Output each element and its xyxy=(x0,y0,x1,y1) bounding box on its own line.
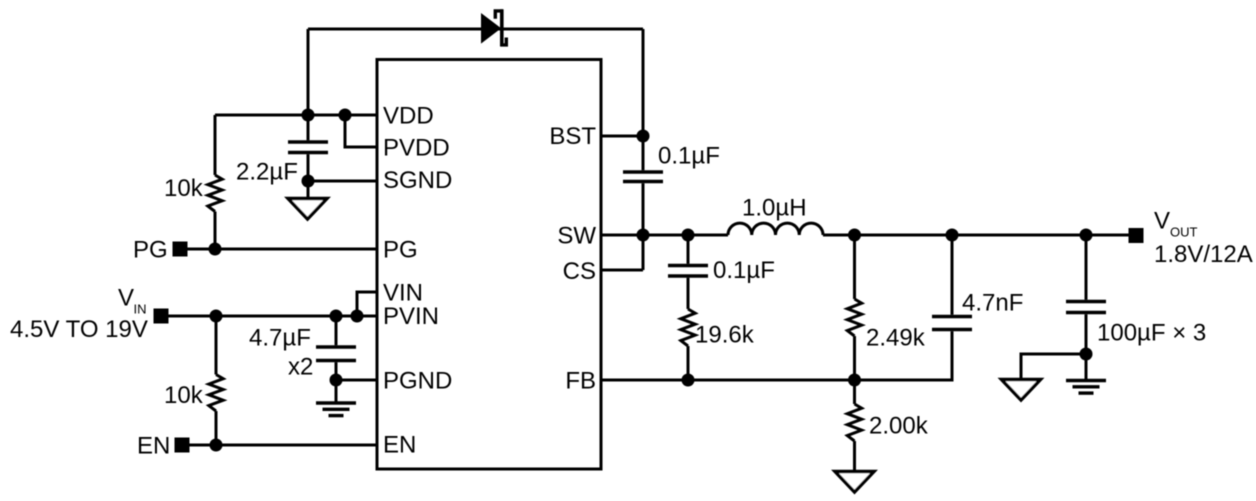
svg-text:10k: 10k xyxy=(164,382,204,409)
svg-text:EN: EN xyxy=(137,433,170,460)
svg-text:V: V xyxy=(118,285,134,312)
svg-text:10k: 10k xyxy=(164,175,204,202)
svg-text:1.0µH: 1.0µH xyxy=(742,195,807,222)
svg-text:CS: CS xyxy=(563,258,596,285)
svg-text:0.1µF: 0.1µF xyxy=(658,143,720,170)
svg-text:BST: BST xyxy=(549,123,596,150)
svg-text:PVIN: PVIN xyxy=(383,303,439,330)
svg-text:VDD: VDD xyxy=(383,103,434,130)
svg-text:2.2µF: 2.2µF xyxy=(236,159,298,186)
svg-text:V: V xyxy=(1154,208,1170,235)
svg-text:PVDD: PVDD xyxy=(383,135,450,162)
svg-text:PGND: PGND xyxy=(383,368,452,395)
svg-text:OUT: OUT xyxy=(1170,225,1198,240)
svg-text:SW: SW xyxy=(557,223,596,250)
svg-text:4.7nF: 4.7nF xyxy=(962,290,1023,317)
svg-text:2.00k: 2.00k xyxy=(869,413,929,440)
svg-text:19.6k: 19.6k xyxy=(695,322,755,349)
svg-text:PG: PG xyxy=(133,237,168,264)
svg-text:IN: IN xyxy=(134,302,147,317)
svg-text:100µF × 3: 100µF × 3 xyxy=(1097,320,1206,347)
svg-text:x2: x2 xyxy=(288,354,313,381)
svg-text:1.8V/12A: 1.8V/12A xyxy=(1154,241,1253,268)
svg-text:4.5V TO 19V: 4.5V TO 19V xyxy=(10,316,148,343)
svg-text:PG: PG xyxy=(383,237,418,264)
svg-text:EN: EN xyxy=(383,432,416,459)
svg-text:0.1µF: 0.1µF xyxy=(713,257,775,284)
svg-text:4.7µF: 4.7µF xyxy=(249,325,311,352)
svg-text:2.49k: 2.49k xyxy=(866,325,926,352)
svg-text:SGND: SGND xyxy=(383,167,452,194)
svg-text:FB: FB xyxy=(565,368,596,395)
